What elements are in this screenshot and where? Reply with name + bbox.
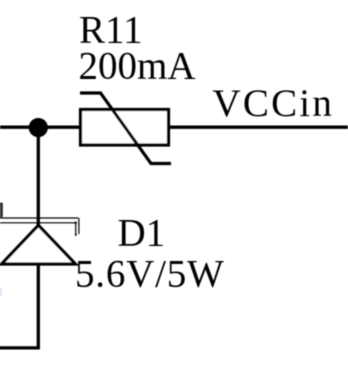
label D1 <box>118 212 166 255</box>
node VCCin <box>213 82 335 125</box>
svg-text:VCCin: VCCin <box>213 82 335 125</box>
svg-text:5.6V/5W: 5.6V/5W <box>75 253 225 296</box>
wire: D1 anode down and left to edge <box>0 263 38 348</box>
label R11 <box>79 8 143 51</box>
wire: main horizontal net, right segment to VCCin <box>169 126 348 129</box>
value label 5.6V/5W <box>75 253 225 296</box>
wire: main horizontal net, left segment into R11 <box>0 126 82 129</box>
value label 200mA <box>79 44 196 87</box>
diode D1 cathode zener bar (thin outline) <box>0 203 79 236</box>
svg-text:D1: D1 <box>118 212 166 255</box>
resistor R11 (PTC fuse body) <box>80 93 171 164</box>
diode D1 anode triangle <box>2 225 76 264</box>
svg-text:200mA: 200mA <box>79 44 196 87</box>
clipped faint artifact at left edge <box>0 288 2 297</box>
node junction dot <box>29 118 48 137</box>
wire: vertical from junction down to D1 anode <box>37 127 40 226</box>
